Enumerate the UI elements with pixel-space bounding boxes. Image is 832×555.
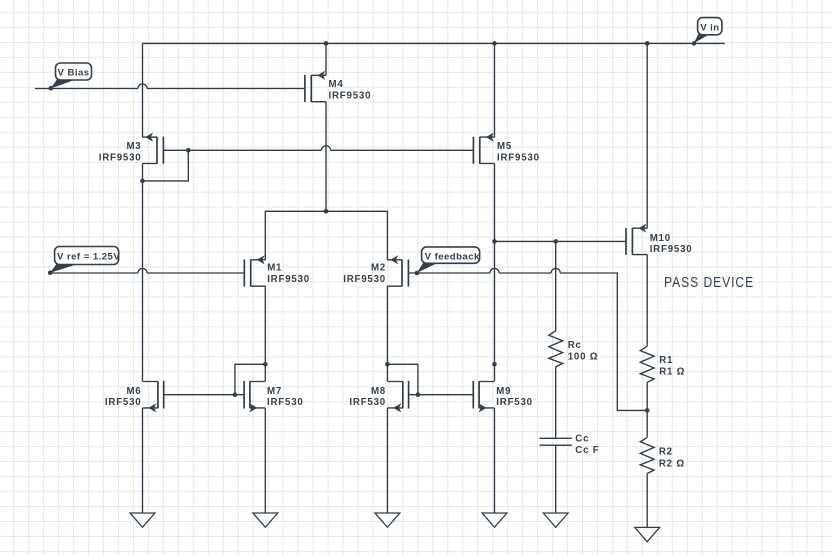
svg-text:PASS DEVICE: PASS DEVICE <box>664 274 754 291</box>
svg-text:Cc: Cc <box>575 434 589 445</box>
svg-text:IRF9530: IRF9530 <box>99 153 142 164</box>
svg-text:M6: M6 <box>126 386 141 397</box>
svg-text:Rc: Rc <box>568 340 582 351</box>
svg-text:V feedback: V feedback <box>425 251 480 262</box>
svg-text:M4: M4 <box>329 79 344 90</box>
svg-text:V in: V in <box>700 23 719 34</box>
svg-text:V Bias: V Bias <box>57 68 89 79</box>
svg-text:IRF530: IRF530 <box>105 397 142 408</box>
svg-text:V ref = 1.25V: V ref = 1.25V <box>57 252 120 263</box>
svg-text:IRF9530: IRF9530 <box>329 91 372 102</box>
svg-text:100 Ω: 100 Ω <box>568 351 599 362</box>
svg-text:R1 Ω: R1 Ω <box>659 367 685 378</box>
svg-text:IRF530: IRF530 <box>496 397 533 408</box>
svg-text:M9: M9 <box>496 386 511 397</box>
svg-text:R1: R1 <box>659 355 673 366</box>
svg-text:IRF9530: IRF9530 <box>650 244 693 255</box>
svg-text:M2: M2 <box>371 263 386 274</box>
svg-text:M7: M7 <box>267 386 282 397</box>
svg-text:M5: M5 <box>497 141 512 152</box>
svg-text:IRF9530: IRF9530 <box>343 274 386 285</box>
svg-text:M1: M1 <box>267 263 282 274</box>
svg-text:M3: M3 <box>126 141 141 152</box>
svg-text:IRF9530: IRF9530 <box>497 153 540 164</box>
svg-text:IRF9530: IRF9530 <box>267 274 310 285</box>
svg-text:R2 Ω: R2 Ω <box>659 458 685 469</box>
svg-text:M8: M8 <box>371 386 386 397</box>
svg-text:IRF530: IRF530 <box>267 397 304 408</box>
svg-text:R2: R2 <box>659 447 673 458</box>
svg-text:M10: M10 <box>650 233 671 244</box>
svg-text:IRF530: IRF530 <box>349 397 386 408</box>
svg-text:Cc F: Cc F <box>575 445 599 456</box>
